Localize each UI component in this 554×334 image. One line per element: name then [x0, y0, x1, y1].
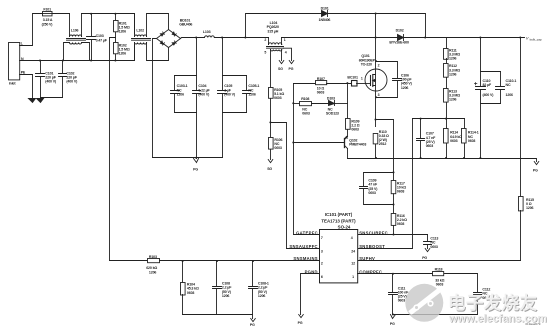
svg-text:F101: F101: [43, 8, 51, 12]
choke L106: [64, 14, 90, 61]
wire aux node: [270, 99, 272, 138]
wire COMPPFC row: [358, 273, 433, 275]
svg-text:BC101: BC101: [347, 75, 358, 79]
svg-text:R118: R118: [435, 268, 443, 272]
capacitor C105: [218, 38, 236, 158]
ground PG C108-1: [250, 319, 255, 327]
svg-text:R107: R107: [317, 77, 325, 81]
svg-text:V: V: [526, 36, 529, 41]
wire current sense from source node: [376, 120, 394, 181]
MOSFET Q101: [359, 14, 387, 127]
diode D102: [389, 28, 409, 44]
svg-text:C103: C103: [96, 34, 104, 38]
svg-text:L103: L103: [203, 30, 211, 34]
wire gate row to bead: [327, 83, 352, 85]
wire R108 row left: [294, 103, 300, 105]
IC op IC101 TEA1713: [289, 212, 388, 283]
resistor R113: [444, 78, 461, 129]
svg-text:(250 V): (250 V): [42, 23, 54, 27]
svg-text:2: 2: [264, 38, 266, 42]
resistor R117: [391, 181, 406, 214]
diode D101: [319, 6, 331, 22]
svg-text:SNSCURPFC: SNSCURPFC: [359, 230, 388, 235]
svg-text:1: 1: [352, 275, 354, 279]
svg-text:SG: SG: [278, 67, 283, 71]
wire C103-1 C104 box: [175, 76, 197, 113]
wire L102 to bridge top: [147, 14, 169, 37]
wire R108 to D103: [312, 103, 329, 105]
wire C110 box: [481, 72, 501, 104]
wire gate node right column: [347, 84, 349, 119]
svg-text:0.47 µF: 0.47 µF: [96, 38, 108, 42]
resistor R114: [444, 129, 463, 159]
ground PG transformer: [289, 61, 294, 71]
svg-text:(400 V): (400 V): [45, 80, 57, 84]
svg-text:PG: PG: [289, 67, 294, 71]
svg-text:PG: PG: [422, 256, 427, 260]
capacitor C103-1: [171, 76, 188, 113]
svg-text:PG: PG: [193, 167, 198, 171]
svg-text:0603: 0603: [368, 191, 376, 195]
svg-text:0603: 0603: [468, 139, 476, 143]
wire SNSCURPFC row: [358, 234, 428, 236]
wire bead to gate: [357, 83, 366, 85]
svg-text:12: 12: [351, 261, 355, 265]
svg-text:SO-24: SO-24: [338, 224, 351, 229]
svg-text:R108: R108: [301, 97, 309, 101]
svg-text:1206: 1206: [177, 92, 185, 96]
ground PG power rail: [533, 162, 539, 173]
svg-text:1: 1: [361, 76, 363, 80]
svg-text:1206: 1206: [222, 294, 230, 298]
ferrite bead BC101: [347, 75, 358, 86]
wire top rail after L106: [82, 14, 135, 34]
diode D103: [326, 96, 348, 115]
svg-text:PG: PG: [533, 168, 538, 172]
wire SNSMAINS sense tap long vertical: [110, 38, 116, 261]
wire R103 to IC: [160, 260, 320, 262]
transistor Q102: [294, 136, 367, 148]
resistor R104: [181, 261, 199, 315]
wire SNSAUXPFC row: [287, 248, 320, 250]
wire rail primary to drain junction: [282, 37, 376, 39]
svg-text:SNSAUXPFC: SNSAUXPFC: [289, 244, 318, 249]
svg-text:1206: 1206: [248, 92, 256, 96]
svg-text:inlet: inlet: [9, 82, 17, 86]
wire R118 to C112: [445, 274, 478, 293]
svg-text:0603: 0603: [302, 112, 310, 116]
wire bridge minus to primary ground rail: [153, 39, 157, 158]
svg-text:GBU406: GBU406: [179, 23, 192, 27]
capacitor C110: [475, 38, 495, 159]
svg-text:2: 2: [378, 64, 380, 68]
wire SNSBOOST row and column: [358, 119, 413, 249]
svg-text:IC101 (PART): IC101 (PART): [325, 212, 353, 217]
wire N rail to L102: [90, 45, 135, 61]
watermark text: [448, 293, 548, 326]
svg-text:(400 V): (400 V): [483, 93, 495, 97]
chassis ground PE: [29, 99, 36, 103]
resistor R106 aux: [269, 138, 283, 160]
capacitor C105-1: [243, 76, 260, 113]
svg-text:PQ2620: PQ2620: [267, 25, 279, 29]
svg-text:7: 7: [321, 236, 323, 240]
wire fuse to L106 top rail: [53, 13, 70, 15]
wire rail to D101 top branch: [246, 14, 322, 38]
svg-text:2512: 2512: [379, 142, 387, 146]
svg-text:0603: 0603: [274, 96, 282, 100]
svg-text:4: 4: [351, 236, 353, 240]
svg-text:PMBT4403: PMBT4403: [349, 143, 366, 147]
wire D101 to drain and down: [328, 14, 426, 38]
wire GATEPFC row: [294, 234, 320, 236]
wire PGND row: [301, 274, 320, 315]
svg-text:1206: 1206: [119, 52, 127, 56]
svg-text:SNSBOOST: SNSBOOST: [359, 244, 385, 249]
svg-text:L102: L102: [136, 29, 144, 33]
svg-text:电子发烧友: 电子发烧友: [448, 293, 538, 313]
svg-text:PG: PG: [298, 321, 303, 325]
svg-text:D103: D103: [327, 96, 335, 100]
wire bulk rail: [426, 37, 525, 39]
wire gate network left column: [293, 84, 295, 235]
capacitor C106 snubber: [377, 62, 413, 98]
wire bottom divider: [183, 314, 253, 316]
svg-text:bulk_cap: bulk_cap: [530, 37, 542, 41]
svg-text:1206: 1206: [449, 57, 457, 61]
capacitor C104: [193, 38, 211, 158]
svg-text:R103: R103: [149, 255, 157, 259]
svg-text:24: 24: [351, 249, 355, 253]
resistor R102: [114, 33, 130, 61]
ground PG C111: [390, 315, 396, 327]
svg-text:315 µH: 315 µH: [267, 30, 278, 34]
wire bridge plus to rail: [181, 38, 205, 39]
wire SUPHV row: [358, 260, 521, 262]
capacitor C108: [213, 261, 233, 315]
svg-text:1206: 1206: [149, 270, 157, 274]
resistor R108: [300, 97, 312, 115]
svg-text:TEA1713 (PART): TEA1713 (PART): [321, 219, 356, 224]
capacitor C113: [424, 235, 439, 249]
svg-text:(400 V): (400 V): [224, 92, 236, 96]
svg-text:D101: D101: [321, 6, 329, 10]
svg-text:0603: 0603: [450, 139, 458, 143]
svg-text:SG: SG: [267, 167, 272, 171]
wire Q102 collector to rail: [347, 149, 349, 159]
svg-text:1206: 1206: [258, 294, 266, 298]
svg-text:6: 6: [321, 275, 323, 279]
svg-text:0603: 0603: [398, 299, 406, 303]
capacitor C112: [393, 288, 491, 315]
resistor R110: [373, 130, 389, 158]
svg-text:1206: 1206: [526, 206, 534, 210]
svg-text:D102: D102: [396, 28, 404, 32]
svg-text:1: 1: [284, 38, 286, 42]
ground PG PGND: [298, 315, 304, 326]
ground PG cap bank: [193, 158, 198, 172]
wire gate row: [294, 83, 316, 85]
wire core shield to PG: [284, 48, 292, 60]
svg-text:4: 4: [285, 50, 287, 54]
wire primary PG rail: [153, 157, 223, 159]
ground SG aux: [267, 160, 273, 172]
svg-text:PG: PG: [390, 322, 395, 326]
ground SG transformer: [278, 61, 284, 71]
wire PG power rail: [348, 159, 537, 162]
svg-text:TO-220: TO-220: [361, 63, 372, 67]
wire SNSMAINS row: [110, 260, 148, 262]
svg-text:BYV26E-600: BYV26E-600: [389, 41, 409, 45]
resistor R112: [444, 59, 461, 78]
resistor R115: [519, 38, 534, 261]
svg-text:SOD123: SOD123: [326, 112, 339, 116]
wire L from inlet to fuse: [20, 14, 43, 46]
svg-text:0603: 0603: [397, 222, 405, 226]
capacitor C109: [360, 173, 394, 205]
resistor R109: [346, 119, 360, 137]
svg-text:1206: 1206: [449, 98, 457, 102]
svg-text:0603: 0603: [430, 245, 438, 249]
svg-text:1206: 1206: [449, 72, 457, 76]
watermark logo: [405, 284, 443, 322]
svg-text:0603: 0603: [351, 128, 359, 132]
bridge rectifier BD101: [157, 18, 193, 47]
wire boost divider row: [413, 118, 465, 120]
svg-text:GATEPFC: GATEPFC: [296, 230, 318, 235]
transformer L104: [264, 21, 286, 55]
wire rail L103 to transformer: [215, 37, 269, 39]
resistor R111: [444, 38, 461, 61]
capacitor C107: [417, 119, 437, 159]
resistor R118: [433, 268, 445, 287]
svg-text:0603: 0603: [397, 190, 405, 194]
wire drain junction to D102 to bulk: [376, 37, 426, 39]
svg-text:2: 2: [321, 261, 323, 265]
capacitor C108-1: [249, 261, 269, 319]
resistor R103: [146, 255, 159, 274]
wire C105 C105-1 box: [223, 76, 247, 113]
ground PG C113: [422, 249, 430, 261]
svg-text:1206: 1206: [119, 30, 127, 34]
svg-text:1N5406: 1N5406: [319, 18, 331, 22]
svg-text:019aaa579: 019aaa579: [525, 322, 540, 326]
svg-text:3: 3: [321, 249, 323, 253]
svg-text:0603: 0603: [436, 283, 444, 287]
inlet connector: [9, 42, 26, 86]
inductor L103: [203, 30, 214, 37]
wire secondary right to SG: [281, 50, 283, 61]
capacitor C103: [87, 14, 108, 61]
wire PE: [20, 75, 33, 98]
choke L102: [132, 14, 151, 61]
svg-text:(400 V): (400 V): [198, 92, 210, 96]
svg-text:PG: PG: [250, 323, 255, 327]
capacitor C110-1: [496, 72, 517, 104]
svg-text:SUPHV: SUPHV: [359, 256, 375, 261]
svg-text:NC: NC: [506, 83, 511, 87]
capacitor C111: [389, 274, 410, 315]
wire cap bottoms join: [41, 97, 63, 99]
svg-text:3: 3: [378, 93, 380, 97]
svg-text:(400 V): (400 V): [66, 80, 78, 84]
resistor R105 aux: [269, 88, 285, 101]
wire L102 to bridge bottom: [147, 43, 169, 61]
resistor R116: [391, 214, 407, 235]
resistor R107: [316, 77, 327, 94]
wire N rail from inlet: [20, 60, 64, 62]
svg-text:0603: 0603: [426, 144, 434, 148]
wire SNSAUXPFC tap: [271, 123, 287, 249]
svg-text:0603: 0603: [187, 291, 195, 295]
svg-text:0603: 0603: [317, 90, 325, 94]
resistor R114-1: [462, 119, 479, 159]
svg-text:1206: 1206: [506, 93, 514, 97]
fuse F101: [42, 8, 54, 27]
svg-text:5: 5: [264, 50, 266, 54]
chassis ground caps: [37, 99, 44, 103]
svg-text:PE: PE: [21, 71, 26, 75]
svg-text:1206: 1206: [401, 86, 409, 90]
wire N rail under choke: [64, 60, 90, 62]
svg-text:0603: 0603: [274, 146, 282, 150]
svg-text:L106: L106: [71, 29, 79, 33]
capacitor C101: [36, 61, 57, 98]
svg-text:82 µF: 82 µF: [483, 83, 492, 87]
capacitor C102: [59, 61, 79, 98]
wire secondary left to aux divider: [270, 50, 272, 88]
resistor R101: [114, 14, 130, 34]
